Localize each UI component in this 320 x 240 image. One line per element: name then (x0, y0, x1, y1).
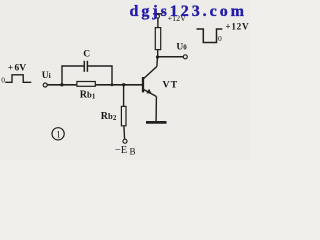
wire resistor to +12V terminal (157, 18, 159, 27)
wire Rb2 to -EB terminal (123, 126, 126, 140)
resistor Rb2 branch (123, 85, 125, 106)
+12V rail bar (153, 13, 162, 15)
capacitor C branch wires (62, 66, 84, 85)
emitter arrow (146, 89, 151, 94)
input terminal Ui (43, 83, 47, 87)
output pulse waveform (197, 29, 223, 43)
annotation circle 1 (52, 128, 64, 140)
paper background (0, 0, 250, 160)
paper noise (0, 0, 1, 1)
wire node to U0 terminal (158, 56, 184, 58)
transistor VT base bar (142, 77, 144, 92)
resistor Rb2 (121, 106, 126, 125)
collector diagonal (143, 66, 157, 79)
collector vertical to junction (156, 57, 159, 66)
collector node (156, 55, 159, 58)
emitter vertical (155, 96, 157, 121)
emitter diagonal (143, 89, 156, 96)
collector resistor (155, 28, 160, 50)
node: cap right junction (111, 83, 114, 86)
terminal U0 (183, 55, 187, 59)
terminal -EB (123, 139, 127, 143)
wire input to Rb1 (47, 84, 76, 86)
node: Rb2 junction (122, 83, 125, 86)
ground (146, 121, 167, 124)
input pulse waveform (5, 75, 31, 83)
+12V terminal circle (156, 14, 160, 18)
wire Rb1 to base junction (95, 84, 142, 86)
node: cap left junction (60, 83, 63, 86)
resistor Rb1 (77, 82, 95, 87)
capacitor C plates (83, 61, 85, 72)
wire collector resistor (157, 50, 159, 57)
